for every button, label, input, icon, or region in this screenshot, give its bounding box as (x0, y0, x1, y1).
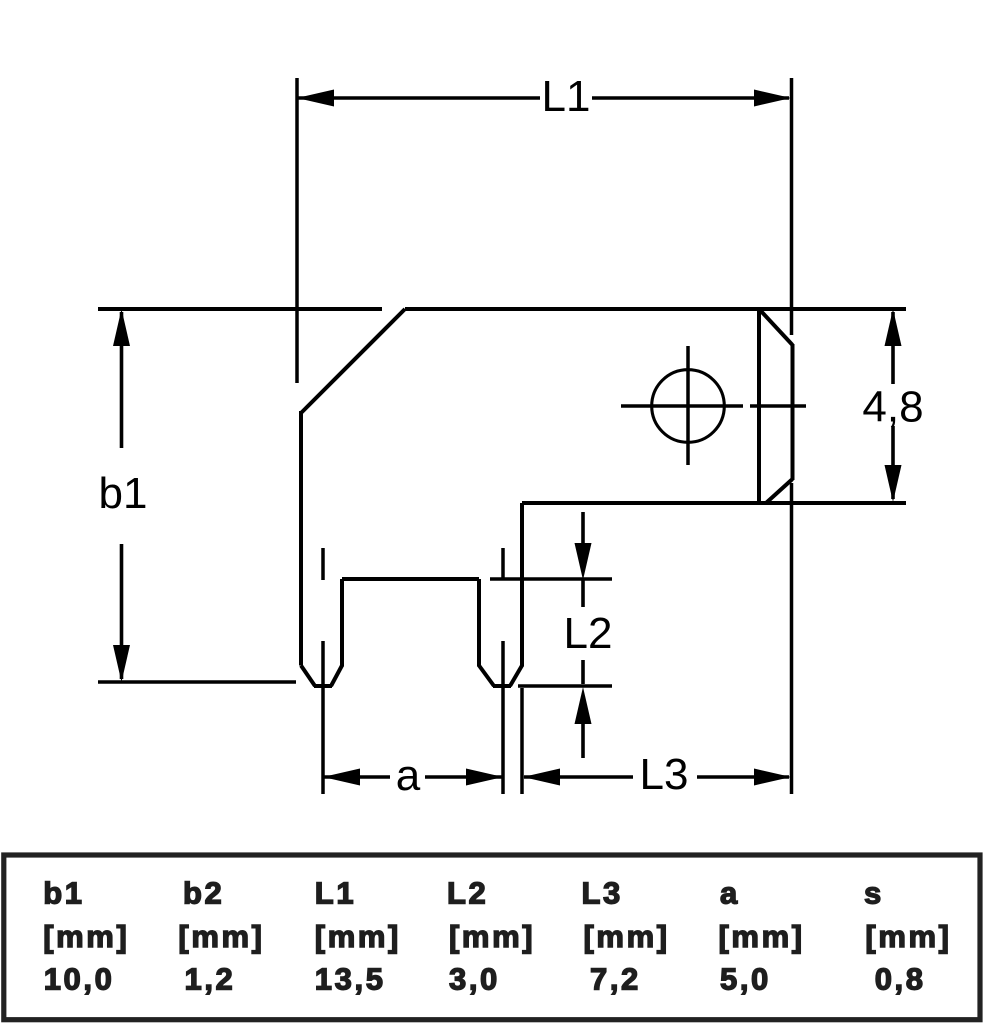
L2 dimension line lower tail (581, 721, 585, 758)
right leg centerline upper segment (501, 548, 505, 580)
tab fold line (757, 309, 761, 503)
svg-text:L3: L3 (582, 876, 623, 911)
L1 dimension line (297, 96, 540, 100)
L2 dimension line upper tail (581, 512, 585, 547)
hole in tab (652, 370, 725, 443)
svg-text:a: a (720, 876, 740, 911)
svg-text:13,5: 13,5 (315, 962, 386, 997)
svg-text:0,8: 0,8 (875, 962, 926, 997)
crotch level extension line (L2 top) (490, 577, 612, 581)
svg-text:3,0: 3,0 (449, 962, 500, 997)
b1 bottom extension line (98, 680, 296, 684)
L3 right extension line lower (790, 483, 794, 794)
table border (4, 855, 980, 1020)
svg-text:10,0: 10,0 (44, 962, 115, 997)
tab bevel right edge (791, 344, 795, 480)
svg-text:L2: L2 (564, 609, 613, 658)
part outline top edge + 4,8 top extension (405, 307, 906, 311)
svg-text:[mm]: [mm] (43, 919, 129, 954)
hole centerline horizontal long segment (621, 404, 743, 408)
left leg tip right chamfer (331, 666, 342, 687)
svg-text:7,2: 7,2 (590, 962, 641, 997)
right leg right edge extension (L3 left) (520, 688, 524, 794)
svg-text:[mm]: [mm] (315, 919, 401, 954)
right leg left edge (477, 579, 481, 667)
4,8 top arrowhead (885, 309, 902, 346)
leg tip level extension line (L2 bottom) (518, 684, 612, 688)
4,8 dimension line (891, 312, 895, 384)
b1 bottom arrowhead (113, 645, 130, 682)
b1 dimension line (120, 312, 124, 448)
svg-text:4,8: 4,8 (862, 383, 923, 432)
crotch edge between legs (342, 577, 479, 581)
L2 upper arrowhead (points down) (575, 543, 592, 580)
L3 left arrowhead (523, 769, 560, 786)
svg-text:b2: b2 (183, 876, 224, 911)
right leg tip flat (493, 684, 511, 688)
svg-text:L1: L1 (542, 72, 591, 121)
right leg tip left chamfer (479, 666, 494, 687)
svg-text:[mm]: [mm] (584, 919, 670, 954)
svg-text:[mm]: [mm] (178, 919, 264, 954)
right leg tip right chamfer (510, 666, 522, 687)
L2 lower arrowhead (points up) (575, 687, 592, 724)
svg-text:L2: L2 (447, 876, 488, 911)
L1 right arrowhead (754, 90, 791, 107)
tab bevel top diagonal (759, 309, 793, 345)
svg-text:[mm]: [mm] (449, 919, 535, 954)
svg-text:b1: b1 (99, 469, 148, 518)
a left arrowhead (323, 769, 360, 786)
a right arrowhead (466, 769, 503, 786)
a dimension line (323, 775, 390, 779)
L1 left arrowhead (297, 90, 334, 107)
svg-text:s: s (864, 876, 884, 911)
b1 top arrowhead (113, 309, 130, 346)
svg-text:L1: L1 (315, 876, 356, 911)
4,8 bottom arrowhead (885, 465, 902, 502)
part top-left chamfer (301, 309, 405, 413)
right leg right edge (520, 503, 524, 667)
L1 right / L3 right extension line upper (790, 78, 794, 335)
L3 right arrowhead (754, 769, 791, 786)
L3 dimension line (524, 775, 633, 779)
svg-text:a: a (396, 751, 421, 800)
right leg centerline lower segment / a extension (501, 641, 505, 794)
tab bevel bottom diagonal (766, 479, 793, 503)
part left edge (299, 411, 303, 666)
svg-text:[mm]: [mm] (719, 919, 805, 954)
step bottom edge of tab + 4,8 bottom extension (522, 501, 906, 505)
hole centerline horizontal short segment (750, 404, 806, 408)
left leg tip left chamfer (301, 666, 315, 687)
L2 dimension line middle (581, 580, 585, 607)
svg-text:5,0: 5,0 (720, 962, 771, 997)
L1 left extension line (295, 78, 299, 383)
left leg right edge (340, 579, 344, 667)
extension line top (b1 top, y=309 left of chamfer) (98, 307, 382, 311)
hole centerline vertical (686, 346, 690, 465)
svg-text:1,2: 1,2 (185, 962, 236, 997)
left leg tip flat (314, 684, 332, 688)
svg-text:[mm]: [mm] (865, 919, 951, 954)
left leg centerline upper segment (321, 548, 325, 580)
left leg centerline lower segment / a extension (321, 641, 325, 794)
svg-text:b1: b1 (43, 876, 84, 911)
svg-text:L3: L3 (640, 750, 689, 799)
